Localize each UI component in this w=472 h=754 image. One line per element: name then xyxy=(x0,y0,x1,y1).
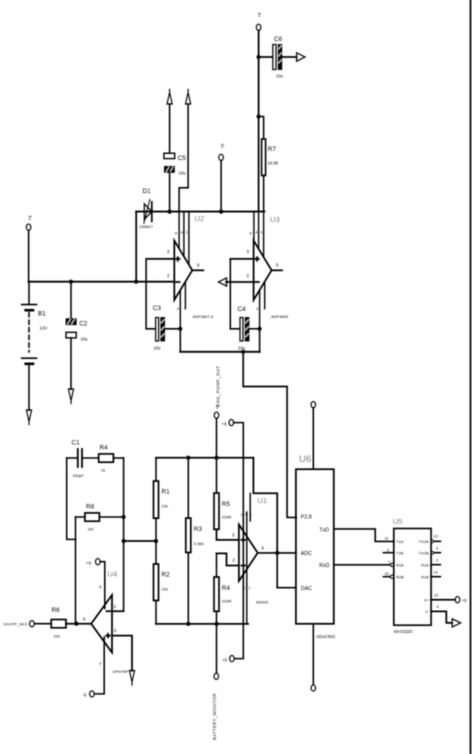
svg-text:U6: U6 xyxy=(299,454,311,465)
op-amp U4 OP97 mirrored xyxy=(83,570,129,675)
svg-text:R1: R1 xyxy=(162,489,171,496)
wire R7 bottom xyxy=(263,176,265,212)
svg-text:10u: 10u xyxy=(81,337,89,342)
svg-text:R3: R3 xyxy=(194,526,203,533)
svg-text:10u: 10u xyxy=(238,346,246,351)
off-page arrow right of C6 xyxy=(297,53,305,61)
svg-text:2: 2 xyxy=(436,559,438,563)
node -5 label U4 xyxy=(83,693,87,698)
wire U6 top pin xyxy=(312,408,314,469)
node junction R3 bottom xyxy=(186,622,190,626)
pin numbers U1 bottom xyxy=(243,586,251,590)
wire R5 to U1 plus xyxy=(217,529,239,540)
svg-text:15: 15 xyxy=(385,572,389,576)
svg-text:SIG/PP_NEG: SIG/PP_NEG xyxy=(4,623,28,627)
svg-text:4: 4 xyxy=(181,231,183,235)
capacitor C1 330pF xyxy=(67,440,99,479)
svg-text:R2: R2 xyxy=(162,572,171,579)
wire bus left corner down to battery rail xyxy=(135,212,137,282)
wire arrow A2 jog to bus xyxy=(179,104,188,212)
svg-text:1: 1 xyxy=(249,586,251,590)
svg-text:220R: 220R xyxy=(222,515,232,520)
page border right edge xyxy=(470,0,472,754)
wire U3 bottom pins xyxy=(260,282,265,329)
wire U1 power pin stubs top xyxy=(246,512,248,624)
svg-text:5: 5 xyxy=(387,549,389,553)
svg-text:1: 1 xyxy=(186,231,188,235)
connector +5 divider xyxy=(214,412,219,418)
svg-text:4: 4 xyxy=(437,605,439,609)
connector +5 U5 xyxy=(455,597,460,603)
wire V- to arrow xyxy=(431,611,452,623)
wire output branch to DAC xyxy=(277,553,296,588)
wire U3 output stub xyxy=(272,269,282,271)
wire divider bottom bus xyxy=(156,623,248,625)
svg-text:10u: 10u xyxy=(154,346,162,351)
wire arrow A1 to C5 xyxy=(169,104,171,153)
node junction C2 tap xyxy=(69,280,73,284)
pin number U1 minus xyxy=(233,558,236,563)
wire C4 left leg xyxy=(230,259,239,329)
svg-text:AD620: AD620 xyxy=(256,600,269,605)
svg-text:R4: R4 xyxy=(222,585,231,592)
off-page arrow down battery xyxy=(26,410,31,425)
svg-text:RxD: RxD xyxy=(319,563,329,569)
wire jack to R6 xyxy=(35,623,52,625)
resistor R4 gain 220R xyxy=(214,553,231,611)
svg-text:+5: +5 xyxy=(222,421,228,426)
op-amp U1 AD620 xyxy=(239,496,269,605)
wire rail to battery xyxy=(28,282,30,305)
pin numbers U3 top xyxy=(250,231,263,236)
pin numbers U5 left xyxy=(385,537,391,577)
battery B1 12V xyxy=(22,305,48,364)
svg-text:220R: 220R xyxy=(222,599,232,604)
wire U2 power pins from bus xyxy=(179,212,189,265)
wire R2 bottom xyxy=(155,601,157,624)
node junction R4 bus xyxy=(214,622,218,626)
node junction C6 tap xyxy=(257,55,261,59)
svg-text:C4: C4 xyxy=(238,306,247,313)
wire U4 vminus pin xyxy=(95,637,104,694)
svg-text:C3: C3 xyxy=(153,305,162,312)
svg-text:U4: U4 xyxy=(108,570,118,579)
wire U1 ref loop xyxy=(253,458,277,553)
svg-text:8: 8 xyxy=(250,232,252,236)
wire charge pump bottom bus xyxy=(180,351,259,353)
node +5 label over connector xyxy=(220,143,225,148)
svg-text:BATTERY_MONITOR: BATTERY_MONITOR xyxy=(212,693,217,740)
svg-text:13: 13 xyxy=(434,535,438,539)
wire C3 left leg xyxy=(146,259,155,329)
svg-text:7: 7 xyxy=(263,307,265,311)
pin numbers U5 right xyxy=(434,535,439,610)
wire divider tap xyxy=(124,540,156,542)
net label rotated VOUT xyxy=(216,365,221,407)
wire R1 to node xyxy=(155,518,157,564)
svg-text:+5: +5 xyxy=(220,143,225,148)
node junction R3 top xyxy=(186,456,190,460)
wire +9V rail down xyxy=(258,31,260,212)
wire V+ to connector xyxy=(431,599,455,601)
off-page arrow down C2 xyxy=(68,389,73,404)
svg-text:5.36k: 5.36k xyxy=(194,541,204,546)
op-amp U3 ADP3605 xyxy=(247,215,289,319)
wire connector to rail xyxy=(28,230,30,281)
node junction conn-bus xyxy=(219,210,223,214)
connector U6 top xyxy=(311,402,316,408)
svg-text:4: 4 xyxy=(245,513,247,517)
svg-text:+5: +5 xyxy=(222,657,228,662)
resistor R1 22k xyxy=(154,458,171,519)
wire feedback rail left xyxy=(75,517,77,624)
svg-text:R1A: R1A xyxy=(396,563,404,567)
svg-text:8: 8 xyxy=(175,232,177,236)
wire C6 left xyxy=(259,56,273,58)
connector U6 bottom xyxy=(311,685,316,691)
node junction R7 top xyxy=(257,114,261,118)
svg-text:11: 11 xyxy=(385,537,389,541)
svg-text:24.9k: 24.9k xyxy=(268,161,279,166)
off-page arrow right V- xyxy=(452,619,460,627)
IC U5 MAX3220 xyxy=(393,517,431,634)
pin numbers U3 bottom xyxy=(256,307,265,311)
wire R6 to U4 xyxy=(66,623,91,625)
svg-text:C1: C1 xyxy=(72,440,81,447)
svg-text:+5: +5 xyxy=(462,598,467,603)
svg-text:10u: 10u xyxy=(179,171,187,176)
svg-text:P2.8: P2.8 xyxy=(301,515,312,521)
wire C2 top xyxy=(70,282,72,319)
connector +5 U1 bottom xyxy=(230,656,235,662)
svg-text:D1: D1 xyxy=(143,188,152,195)
svg-text:R8: R8 xyxy=(86,504,95,511)
resistor R5 220R xyxy=(214,458,231,530)
connector -5 U4 xyxy=(90,691,95,697)
wire T1B stub xyxy=(383,552,393,554)
node junction D1 branch xyxy=(134,280,138,284)
bubble R1A pin xyxy=(390,563,393,566)
svg-text:1N5817: 1N5817 xyxy=(139,224,154,229)
svg-text:DAC: DAC xyxy=(301,586,312,592)
resistor R8 1M xyxy=(85,504,100,532)
svg-text:U1: U1 xyxy=(258,496,268,505)
svg-text:+9: +9 xyxy=(257,12,262,18)
wire U3 minus input xyxy=(226,281,254,283)
node +5 label U1 top xyxy=(222,421,228,426)
off-page arrow down U4 plus xyxy=(129,671,134,686)
wire U3 bottom pin to bus xyxy=(259,329,261,352)
node junction bottom bus tap xyxy=(241,350,245,354)
off-page arrow up A1 xyxy=(167,89,172,104)
capacitor C2 xyxy=(66,319,88,342)
pin numbers U2 bottom xyxy=(177,307,186,311)
node junction C3-right xyxy=(178,327,182,331)
wire divider top bus xyxy=(156,457,253,459)
resistor R4 feedback 1M xyxy=(99,445,114,473)
wire U6 bottom pin xyxy=(312,624,314,685)
wire top supply bus xyxy=(136,211,264,213)
svg-text:10u: 10u xyxy=(276,74,284,79)
svg-text:C2: C2 xyxy=(79,321,88,328)
node junction C5-bus xyxy=(168,210,172,214)
wire U2 bottom pin to bus xyxy=(179,329,181,352)
resistor R6 22k xyxy=(51,607,66,639)
connector input jack xyxy=(4,623,28,627)
svg-text:14: 14 xyxy=(434,571,438,575)
wire R8 right leg xyxy=(99,516,123,518)
wire U4 plus input to gnd xyxy=(112,636,132,671)
wire R3 bottom xyxy=(187,553,189,624)
wire battery minus down xyxy=(28,365,30,410)
net label rotated bottom xyxy=(212,693,217,740)
pin numbers U2 top xyxy=(175,231,188,236)
svg-text:3: 3 xyxy=(436,547,438,551)
node +9V top label xyxy=(257,12,262,18)
svg-text:+5: +5 xyxy=(215,404,220,409)
wire RxD to U5 xyxy=(334,564,391,566)
resistor R2 22k xyxy=(154,564,171,601)
svg-text:C5: C5 xyxy=(178,155,187,162)
svg-text:R7: R7 xyxy=(268,146,277,153)
svg-text:1k: 1k xyxy=(101,468,105,473)
wire battery rail xyxy=(29,281,175,283)
svg-text:T1B: T1B xyxy=(396,551,403,555)
svg-text:R4: R4 xyxy=(100,445,109,452)
wire U2 bottom pins xyxy=(180,282,185,329)
bubble R2B pin xyxy=(390,575,393,578)
svg-text:4: 4 xyxy=(177,307,179,311)
wire feedback rail right xyxy=(123,458,125,611)
wire R7 branch top xyxy=(259,117,264,140)
svg-text:CHG_PUMP_OUT: CHG_PUMP_OUT xyxy=(216,365,221,407)
wire U1 minus jog xyxy=(217,553,239,565)
resistor R3 5.36k xyxy=(186,458,204,553)
capacitor C4 xyxy=(238,306,250,351)
wire U3 power pins from bus xyxy=(254,212,264,257)
svg-text:+5: +5 xyxy=(86,561,92,566)
svg-text:T1OA: T1OA xyxy=(419,540,429,544)
svg-text:1M: 1M xyxy=(88,527,94,532)
wire U1 ref pin stub xyxy=(249,493,251,521)
wire C5 to bus xyxy=(169,172,171,211)
connector +5 top middle xyxy=(219,154,224,160)
wire C1 left jog down xyxy=(67,458,76,539)
svg-text:+9: +9 xyxy=(28,215,33,221)
svg-text:22k: 22k xyxy=(162,587,168,592)
svg-text:R6: R6 xyxy=(52,607,61,614)
svg-text:R1B: R1B xyxy=(421,575,429,579)
wire connector to top bus xyxy=(216,418,218,457)
connector +5 U1 top xyxy=(229,420,234,426)
wire R4 bottom xyxy=(216,611,218,624)
svg-text:R1A: R1A xyxy=(421,563,429,567)
wire U4 vplus pin xyxy=(100,562,104,609)
svg-text:V+: V+ xyxy=(424,598,430,602)
wire U1 output to ADC xyxy=(258,552,296,554)
connector J1 +9V xyxy=(256,24,261,30)
svg-text:U3: U3 xyxy=(270,215,280,224)
node junction divider xyxy=(154,539,158,543)
svg-text:1: 1 xyxy=(261,231,263,235)
svg-text:330pF: 330pF xyxy=(73,473,85,478)
svg-text:-5: -5 xyxy=(83,693,87,698)
node junction R8-rail xyxy=(122,515,126,519)
off-page arrow left U3 minus xyxy=(218,278,226,286)
wire U5 right stubs xyxy=(431,541,440,576)
node +5 label U5 xyxy=(462,598,467,603)
node +5 label top xyxy=(215,404,220,409)
wire connector to bus xyxy=(220,161,222,212)
connector +5 U4 xyxy=(96,559,101,565)
svg-text:MAX3220: MAX3220 xyxy=(394,629,413,634)
connector ref bottom xyxy=(214,673,219,679)
node +5 label U4 xyxy=(86,561,92,566)
wire U3 plus input xyxy=(230,258,253,260)
wire U1 +5 rail long xyxy=(234,423,244,659)
node junction C4-right xyxy=(258,327,262,331)
op-amp U2 ADP3607-5 xyxy=(167,214,214,319)
svg-text:12V: 12V xyxy=(40,326,48,331)
svg-text:C6: C6 xyxy=(274,36,283,43)
wire R2B stub xyxy=(383,576,390,578)
node junction R5 top xyxy=(214,456,218,460)
wire C2 bottom xyxy=(70,338,72,389)
resistor R7 24.9k xyxy=(262,139,279,176)
out arrow T1OB xyxy=(431,550,434,555)
wire R8 left leg xyxy=(76,516,85,518)
svg-text:ADuC842: ADuC842 xyxy=(316,634,336,639)
IC U6 ADuC842 xyxy=(296,454,336,639)
wire U2 output stub xyxy=(192,269,203,271)
svg-text:7: 7 xyxy=(184,307,186,311)
svg-text:B1: B1 xyxy=(38,311,46,318)
svg-text:TxD: TxD xyxy=(319,527,329,533)
svg-text:1: 1 xyxy=(388,560,390,564)
svg-text:22k: 22k xyxy=(162,504,168,509)
pin number U1 plus xyxy=(232,533,235,538)
svg-text:10: 10 xyxy=(434,593,438,597)
capacitor C6 xyxy=(273,36,284,79)
wire bus to bottom connector xyxy=(216,624,218,673)
out arrow T1OA xyxy=(431,539,434,544)
node +5 label U1 bottom xyxy=(222,657,228,662)
wire bus to U6 P2.8 xyxy=(243,352,296,518)
node +9V left label xyxy=(28,215,33,221)
wire TxD to U5 xyxy=(334,529,394,542)
svg-text:U2: U2 xyxy=(195,214,205,223)
wire C6 right to arrow xyxy=(282,56,296,58)
svg-text:ADC: ADC xyxy=(301,551,312,557)
svg-text:T1A: T1A xyxy=(396,540,403,544)
capacitor C5 xyxy=(164,153,186,175)
node junction tap-rail xyxy=(122,539,126,543)
svg-text:U5: U5 xyxy=(393,517,403,526)
svg-text:4: 4 xyxy=(256,307,258,311)
svg-text:5: 5 xyxy=(243,586,245,590)
capacitor C3 xyxy=(153,305,165,351)
pin numbers U1 top xyxy=(241,513,252,518)
wire C3 right leg xyxy=(165,328,181,330)
node junction feedback-output xyxy=(74,622,78,626)
wire R4 right to feedback rail xyxy=(113,457,123,459)
svg-text:ADP3605: ADP3605 xyxy=(271,314,289,319)
off-page arrow up A2 xyxy=(186,89,191,104)
svg-text:R2B: R2B xyxy=(396,575,404,579)
svg-text:7: 7 xyxy=(241,514,243,518)
wire U2 plus input xyxy=(147,258,175,260)
svg-text:4: 4 xyxy=(256,231,258,235)
connector J2 battery + xyxy=(26,224,31,230)
diode D1 1N5817 xyxy=(139,188,154,229)
svg-text:R5: R5 xyxy=(222,501,231,508)
wire U4 minus input xyxy=(112,610,124,612)
svg-text:ADP3607-5: ADP3607-5 xyxy=(193,314,214,319)
svg-text:OP97NP: OP97NP xyxy=(113,669,129,674)
node junction ref-output xyxy=(275,551,279,555)
wire C4 right leg xyxy=(249,328,259,330)
svg-text:22k: 22k xyxy=(54,634,60,639)
svg-text:T1OB: T1OB xyxy=(419,551,429,555)
